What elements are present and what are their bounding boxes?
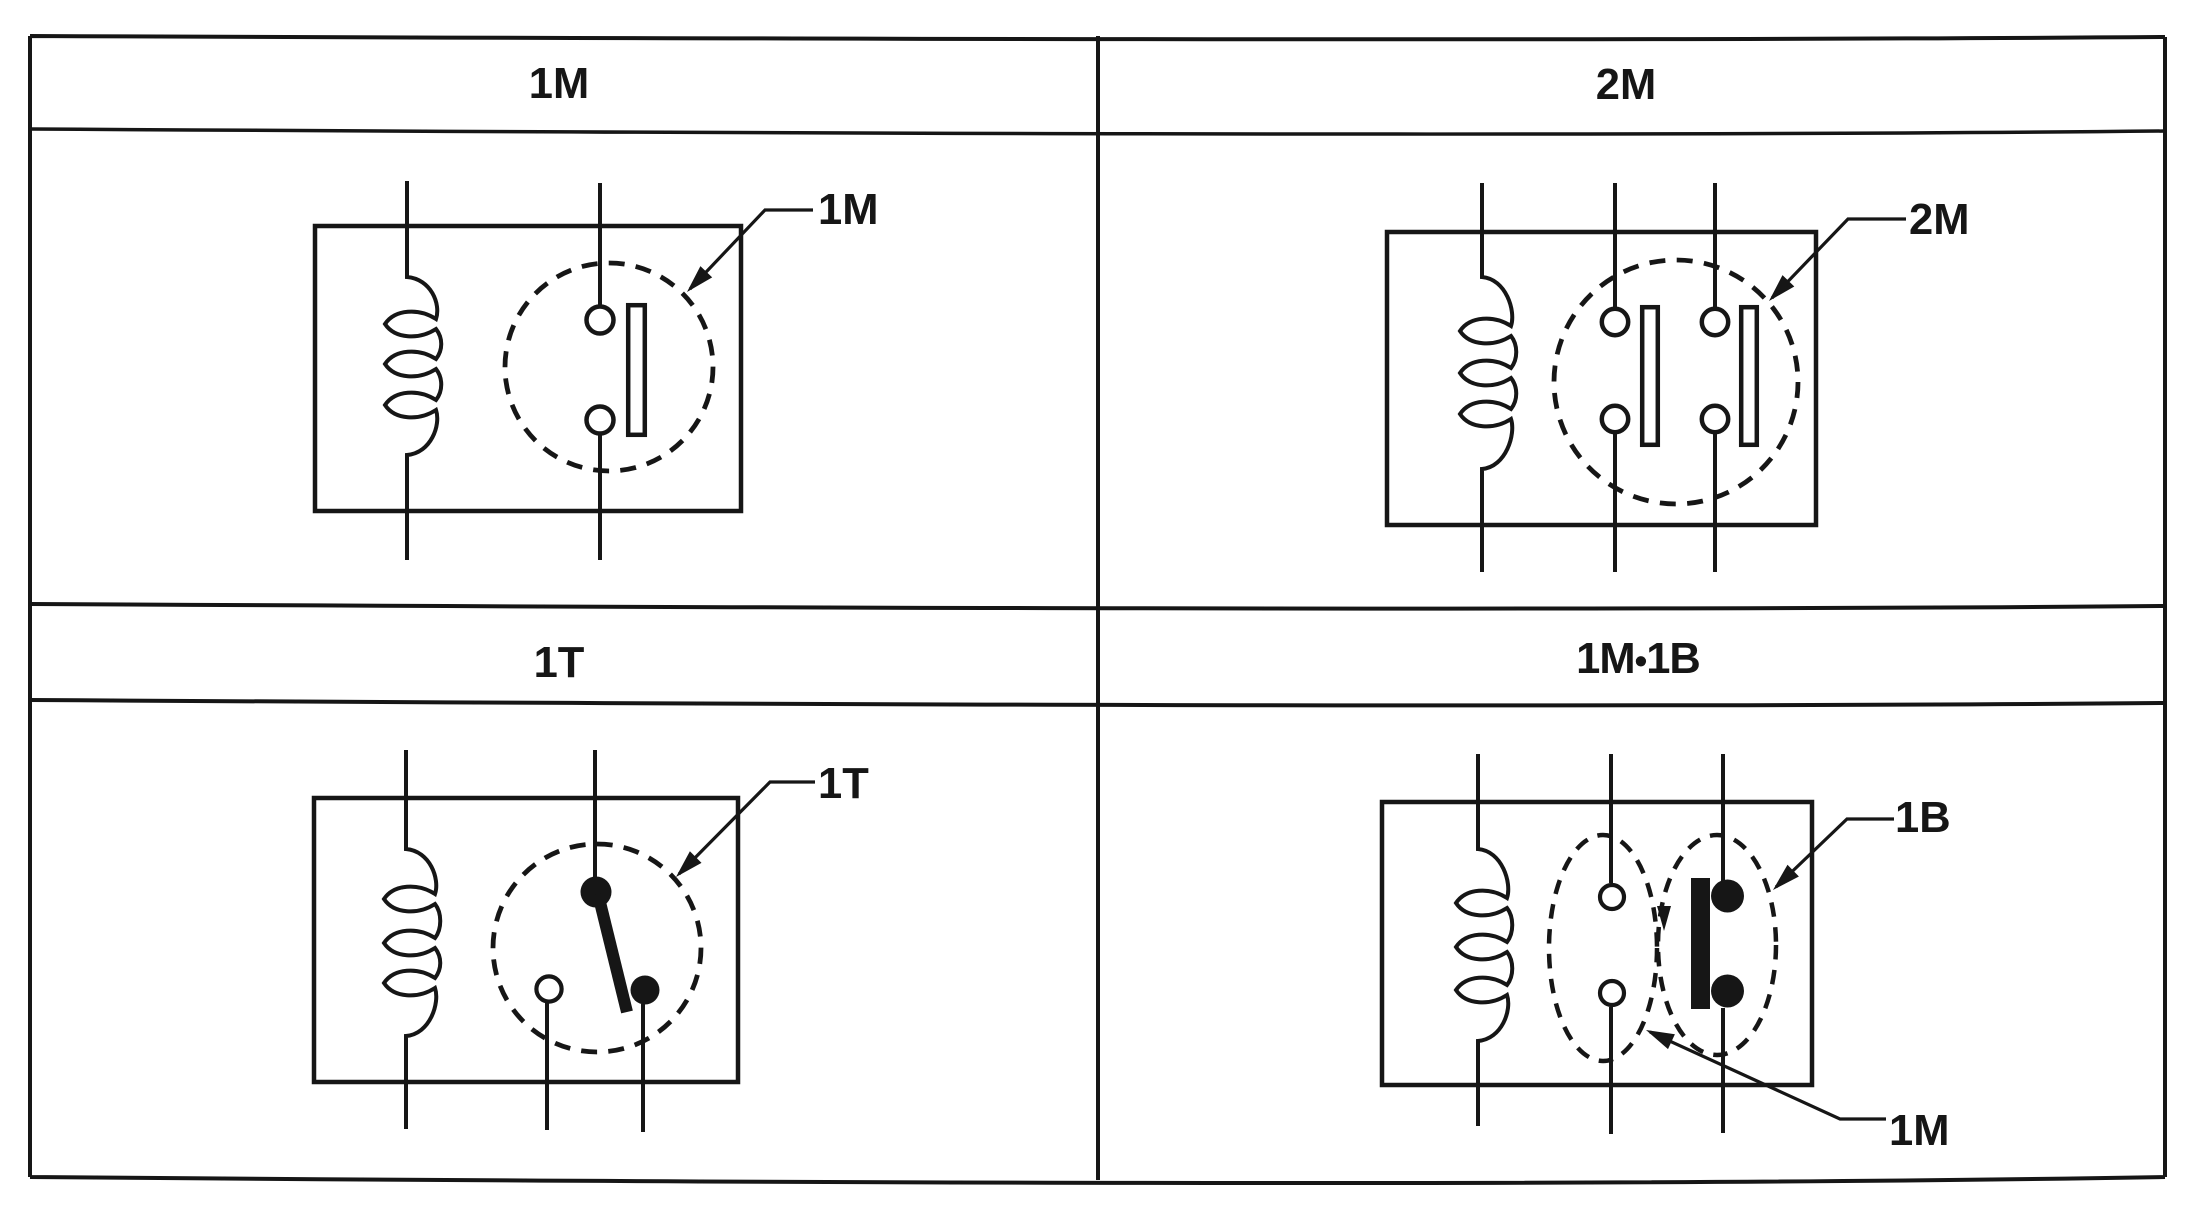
wire make-contact terminals 1M [1609,754,1613,1134]
relay 1M enclosure box [315,226,741,511]
contact unit dashed ellipse 1B [1658,835,1776,1055]
filled terminal dot (break side) 1T [631,976,660,1005]
row line above header 2 [30,604,2165,609]
moving contact bar 1M [628,305,645,435]
filled terminal dot top (1B) [1711,880,1744,913]
leader line to label 2M [1772,219,1906,298]
svg-text:2M: 2M [1596,61,1656,109]
wire break-contact terminals 1B [1721,754,1725,1133]
leader line to label 1T [679,782,815,874]
row line under header 1 [30,129,2165,134]
svg-text:1M: 1M [1889,1107,1949,1155]
leader line to label 1M (bottom) [1650,1032,1886,1119]
terminal circle bottom (contact a) [1602,406,1628,432]
arrowhead of leader 1M [687,266,712,292]
wire make-side terminal 1T [545,1002,549,1130]
terminal circle bottom (1M contact) [587,407,614,434]
small overlap mark between ellipses [1657,906,1671,931]
arrowhead of leader 2M [1769,275,1794,301]
filled pivot dot (common) 1T [581,877,612,908]
leader line to label 1B [1776,819,1894,887]
terminal circle bottom (1M) [1600,981,1624,1005]
arrowhead of leader 1B [1773,865,1799,890]
wire first make-contact terminals 2M [1613,183,1617,572]
svg-text:1B: 1B [1895,794,1951,842]
coil (relay 2M operating coil) with leads [1460,183,1516,572]
moving contact bar b [1741,307,1757,445]
relay 1M-1B enclosure box [1382,802,1812,1085]
transfer contact arm (thick) 1T [598,894,627,1012]
svg-text:1T: 1T [534,639,585,687]
relay 2M enclosure box [1387,232,1816,525]
relay 1T enclosure box [314,798,738,1082]
coil (relay 1T operating coil) with leads [384,750,440,1129]
moving contact bar 1B (solid) [1691,878,1710,1009]
open terminal circle (make side) [536,976,561,1001]
filled terminal dot bottom (1B) [1711,975,1744,1008]
terminal circle bottom (contact b) [1702,406,1728,432]
svg-text:1M: 1M [818,186,878,234]
svg-text:1T: 1T [818,760,869,808]
svg-text:1M•1B: 1M•1B [1576,635,1700,683]
column divider [1096,36,1100,1180]
wire common terminal 1T [593,750,597,880]
contact unit dashed ellipse 1M [1549,835,1657,1061]
terminal circle top (contact a) [1602,309,1628,335]
contact unit dashed circle 2M [1554,260,1798,504]
contact unit dashed circle 1T [493,844,701,1052]
wire break-side terminal 1T [641,1004,645,1132]
terminal circle top (1M contact) [587,307,614,334]
coil (relay 1M operating coil) with leads [385,181,441,560]
arrowhead of leader 1M (bottom) [1646,1030,1675,1049]
leader line to label 1M [690,210,813,289]
arrowhead of leader 1T [676,851,702,877]
terminal circle top (contact b) [1702,309,1728,335]
wire make-contact fixed terminals 1M [598,183,602,560]
row line under header 2 [30,700,2165,705]
coil (relay 1M-1B operating coil) with leads [1456,754,1512,1126]
contact unit dashed circle 1M [505,263,713,471]
moving contact bar a [1642,307,1658,445]
svg-text:1M: 1M [529,60,589,108]
terminal circle top (1M) [1600,885,1624,909]
wire second make-contact terminals 2M [1713,183,1717,572]
svg-text:2M: 2M [1909,196,1969,244]
